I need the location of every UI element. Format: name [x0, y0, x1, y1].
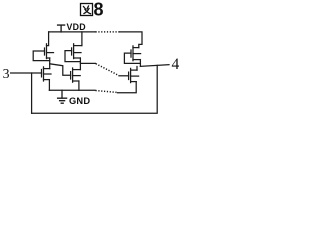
wire bottom rail connecting input branch to output: [32, 65, 158, 113]
GND rail solid left segment: [49, 89, 95, 91]
VDD rail right solid segment with hook down to Q5 source: [120, 32, 142, 48]
wire Q3 source up to VDD rail: [81, 32, 83, 46]
wire node1 to stage2 gates: [50, 64, 71, 75]
pmos Q3 (stage 2): [72, 44, 82, 59]
wire Q3/Q4 drain vertical: [79, 58, 81, 70]
wire Q4 source to GND rail: [78, 81, 80, 90]
wire dashed signal diagonal (omitted stages): [96, 64, 119, 76]
GND rail right solid segment up to Q6 source: [118, 82, 137, 93]
nmos Q2 (stage 1): [42, 67, 52, 81]
svg-text:4: 4: [172, 56, 180, 73]
svg-text:GND: GND: [69, 96, 90, 106]
nmos Q4 (stage 2): [71, 68, 81, 82]
wire gate lead into last stage nmos: [119, 75, 129, 77]
wire node2 output: [80, 62, 95, 64]
wire Q2 source to GND rail: [48, 80, 50, 91]
svg-text:8: 8: [94, 0, 104, 20]
VDD rail left solid segment: [49, 31, 95, 33]
wire Q3 gate lead (left, down, right to drain): [65, 51, 80, 62]
wire input from terminal 3: [11, 72, 42, 74]
wire Q5 gate box (gate tied to output node): [124, 53, 140, 63]
wire Q1/Q2 drain vertical: [49, 58, 51, 69]
wire Q1 gate lead (left, down, right to drain): [33, 51, 50, 61]
wire Q5 drain vertical to output junction: [139, 60, 141, 67]
VDD rail dotted segment: [96, 31, 121, 33]
ground symbol: [61, 90, 63, 98]
VDD power symbol: [58, 25, 65, 32]
pmos Q1 (stage 1): [45, 44, 54, 59]
wire Q6 drain up to output wire: [136, 67, 138, 71]
svg-text:VDD: VDD: [67, 22, 86, 32]
nmos Q6 (output stage): [129, 68, 139, 82]
pmos Q5 (output stage): [131, 46, 141, 61]
wire output to terminal 4: [140, 65, 169, 67]
svg-text:3: 3: [3, 66, 10, 81]
GND rail dotted segment: [96, 91, 118, 93]
wire input branch down to bottom rail: [31, 73, 33, 113]
figure title 図8: [81, 4, 93, 16]
VDD rail left end drop to Q1 source: [47, 32, 49, 46]
